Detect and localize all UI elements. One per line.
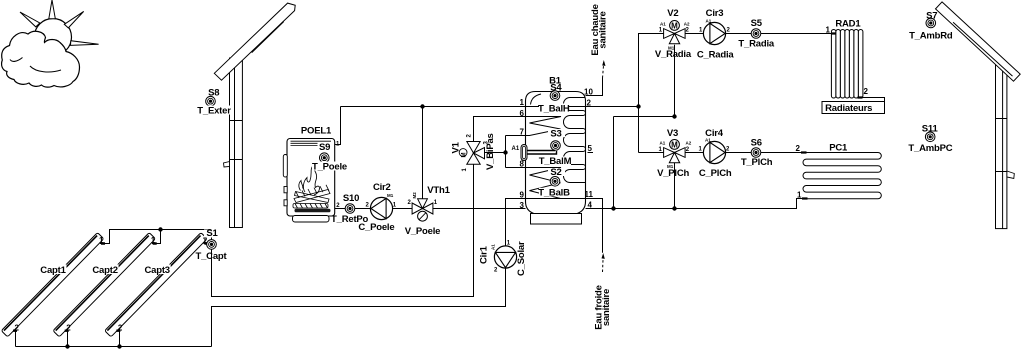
svg-text:2: 2 <box>864 87 869 96</box>
svg-text:A1: A1 <box>491 244 496 250</box>
svg-text:V_Radia: V_Radia <box>655 49 692 60</box>
svg-text:M2: M2 <box>412 192 417 199</box>
svg-text:S10: S10 <box>343 193 359 204</box>
svg-text:Cir3: Cir3 <box>706 8 724 19</box>
svg-text:V_Poele: V_Poele <box>405 226 441 237</box>
svg-text:1: 1 <box>520 98 525 107</box>
svg-text:1: 1 <box>797 191 802 200</box>
svg-text:A1: A1 <box>660 22 666 27</box>
svg-text:3: 3 <box>520 201 525 210</box>
svg-text:10: 10 <box>584 88 593 97</box>
svg-text:C_Solar: C_Solar <box>516 241 527 276</box>
svg-text:S3: S3 <box>550 128 561 139</box>
svg-text:A1: A1 <box>512 146 520 152</box>
svg-text:V1: V1 <box>450 141 461 153</box>
svg-text:Cir1: Cir1 <box>479 245 490 264</box>
svg-text:Radiateurs: Radiateurs <box>825 103 872 114</box>
svg-text:C_PlCh: C_PlCh <box>699 168 732 179</box>
svg-text:C_Poele: C_Poele <box>358 222 394 233</box>
svg-text:sanitaire: sanitaire <box>598 11 609 48</box>
svg-text:T_Radia: T_Radia <box>738 38 774 49</box>
svg-text:A1: A1 <box>706 19 712 24</box>
svg-text:5: 5 <box>588 144 593 153</box>
svg-text:A1: A1 <box>660 141 666 146</box>
svg-text:Capt3: Capt3 <box>144 265 169 276</box>
svg-text:2: 2 <box>587 99 592 108</box>
svg-text:VTh1: VTh1 <box>427 185 450 196</box>
svg-text:T_BalB: T_BalB <box>538 188 570 199</box>
svg-text:T_BalM: T_BalM <box>539 156 572 167</box>
svg-text:V2: V2 <box>667 8 678 19</box>
svg-text:V_PlCh: V_PlCh <box>657 168 689 179</box>
svg-text:RAD1: RAD1 <box>835 18 861 29</box>
svg-text:M1: M1 <box>387 193 394 198</box>
svg-text:T_Exter: T_Exter <box>197 106 231 117</box>
svg-text:T_Capt: T_Capt <box>196 251 228 262</box>
svg-text:T_AmbRd: T_AmbRd <box>909 31 953 42</box>
svg-text:sanitaire: sanitaire <box>601 289 612 326</box>
svg-text:Capt1: Capt1 <box>40 265 66 276</box>
svg-text:T_BalH: T_BalH <box>538 103 570 114</box>
svg-text:Cir2: Cir2 <box>373 182 391 193</box>
svg-text:C_Radia: C_Radia <box>697 49 735 60</box>
svg-text:T_AmbPC: T_AmbPC <box>908 143 952 154</box>
svg-text:S5: S5 <box>751 18 763 29</box>
svg-text:V_BiPas: V_BiPas <box>485 133 496 170</box>
svg-text:T_PlCh: T_PlCh <box>741 157 773 168</box>
svg-text:8: 8 <box>520 160 525 169</box>
svg-text:A1: A1 <box>705 138 711 143</box>
svg-text:S9: S9 <box>319 142 330 153</box>
svg-text:4: 4 <box>588 201 593 210</box>
svg-text:Capt2: Capt2 <box>92 265 117 276</box>
svg-text:M: M <box>461 153 467 158</box>
svg-text:7: 7 <box>520 128 525 137</box>
svg-text:V3: V3 <box>667 128 678 139</box>
svg-text:S1: S1 <box>206 228 218 239</box>
svg-text:A2: A2 <box>686 141 692 146</box>
svg-text:2: 2 <box>796 144 801 153</box>
svg-text:11: 11 <box>585 190 594 199</box>
svg-text:A2: A2 <box>684 22 690 27</box>
svg-text:S6: S6 <box>751 138 762 149</box>
svg-text:T_Poele: T_Poele <box>312 162 347 173</box>
svg-text:1: 1 <box>826 26 831 35</box>
svg-text:9: 9 <box>520 191 525 200</box>
svg-text:6: 6 <box>520 109 525 118</box>
svg-text:POEL1: POEL1 <box>301 126 332 137</box>
